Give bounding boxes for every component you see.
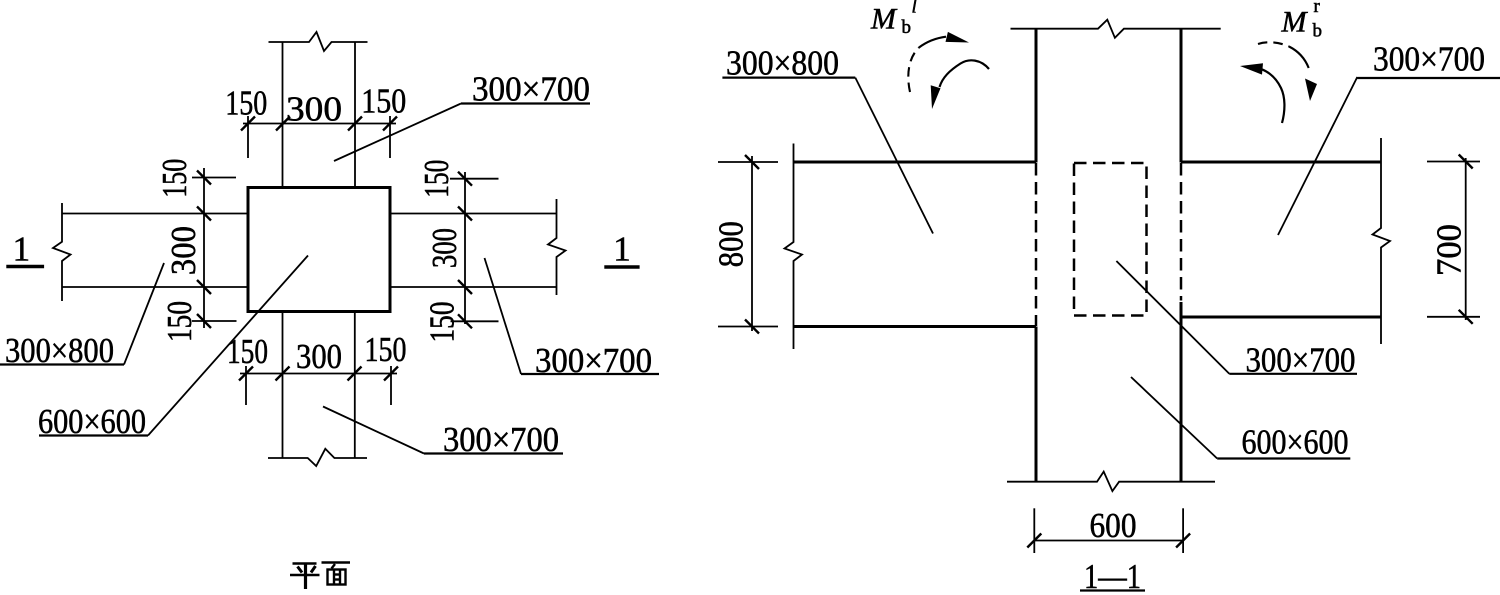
- dimension left 150/300/150 (vertical): [192, 168, 237, 328]
- svg-text:150: 150: [361, 82, 406, 121]
- beam top 300x700 left edge (wire): [282, 42, 284, 187]
- beam top 300x700 right edge (wire): [354, 42, 356, 187]
- svg-text:300: 300: [164, 226, 203, 275]
- svg-text:b: b: [902, 17, 912, 38]
- beam bottom 300x700 left edge (wire): [282, 313, 284, 459]
- break line left beam end: [785, 144, 803, 350]
- caption PingMian char Mian (drawn strokes): [322, 563, 351, 585]
- column right edge below joint (bold): [1180, 302, 1183, 481]
- moment arrow right solid-arc arrowhead: [1240, 63, 1263, 74]
- svg-text:b: b: [1313, 21, 1323, 42]
- svg-text:150: 150: [225, 84, 267, 123]
- break line right beam end: [1373, 138, 1391, 344]
- moment arrow right dashed arc (clockwise): [1258, 42, 1289, 46]
- svg-text:M: M: [870, 3, 898, 36]
- break line bottom beam: [268, 449, 367, 466]
- beam right 300x700 top edge (wire): [391, 213, 557, 215]
- break line left beam end: [53, 203, 71, 301]
- svg-text:300×700: 300×700: [1373, 40, 1485, 79]
- moment arrow left solid arc (counterclockwise): [940, 60, 990, 87]
- moment arrow left dashed-arc arrowhead: [946, 32, 970, 43]
- moment arrow right dashed-arc arrowhead: [1305, 79, 1317, 102]
- break line right beam end: [548, 199, 566, 295]
- dimension 800 (left, vertical): [718, 155, 778, 334]
- column right edge above joint (bold): [1180, 29, 1183, 163]
- column left edge below joint (bold): [1035, 327, 1038, 482]
- svg-text:1: 1: [613, 230, 631, 269]
- dimension 600 (bottom): [1027, 508, 1190, 553]
- beam left 300x800 top edge (wire): [62, 213, 247, 215]
- svg-text:300: 300: [296, 337, 342, 376]
- transverse beam 300x700 hidden (dashed rect): [1074, 163, 1147, 316]
- svg-text:600: 600: [1090, 506, 1137, 545]
- svg-text:150: 150: [160, 301, 199, 342]
- svg-text:300: 300: [425, 228, 464, 268]
- svg-text:150: 150: [422, 302, 461, 343]
- svg-text:M: M: [1281, 6, 1309, 39]
- beam left 300x800 bottom edge (wire): [62, 286, 247, 288]
- break line top beam: [269, 32, 368, 51]
- caption PingMian char Ping (drawn strokes): [290, 564, 320, 590]
- column right edge hidden in joint (dashed): [1180, 163, 1183, 301]
- svg-text:150: 150: [417, 160, 456, 198]
- dimension right 150/300/150 (vertical): [450, 172, 499, 329]
- column left edge above joint (bold): [1035, 29, 1038, 163]
- beam bottom 300x700 right edge (wire): [354, 313, 356, 459]
- dimension 700 (right, vertical): [1427, 155, 1480, 324]
- svg-text:800: 800: [712, 221, 751, 267]
- column left edge hidden in joint (dashed): [1035, 163, 1038, 326]
- break line column bottom: [1007, 472, 1215, 492]
- beam right 300x700 bottom edge (wire): [391, 286, 557, 288]
- right beam 300x700 bottom edge (bold): [1181, 316, 1381, 319]
- left beam 300x800 top edge (bold): [794, 161, 1037, 164]
- break line column top: [1011, 20, 1221, 38]
- svg-text:1: 1: [13, 230, 31, 269]
- moment arrow left solid-arc arrowhead: [931, 85, 941, 109]
- left beam 300x800 bottom edge (bold): [794, 325, 1037, 328]
- dimension bottom 150/300/150: [239, 366, 398, 405]
- right beam 300x700 top edge (bold): [1181, 161, 1381, 164]
- svg-text:600×600: 600×600: [1242, 423, 1349, 462]
- svg-text:r: r: [1314, 0, 1321, 17]
- svg-text:300: 300: [286, 90, 342, 129]
- svg-text:150: 150: [227, 332, 268, 371]
- svg-text:700: 700: [1430, 224, 1469, 276]
- dimension top 150/300/150: [241, 116, 397, 158]
- svg-text:1—1: 1—1: [1084, 557, 1141, 595]
- svg-text:150: 150: [365, 330, 407, 369]
- svg-text:150: 150: [155, 159, 194, 198]
- column 600x600 (plan, bold square): [248, 188, 390, 312]
- svg-text:l: l: [912, 0, 917, 18]
- moment arrow left dashed arc (clockwise): [908, 48, 919, 93]
- moment arrow right solid arc (counterclockwise): [1261, 69, 1285, 123]
